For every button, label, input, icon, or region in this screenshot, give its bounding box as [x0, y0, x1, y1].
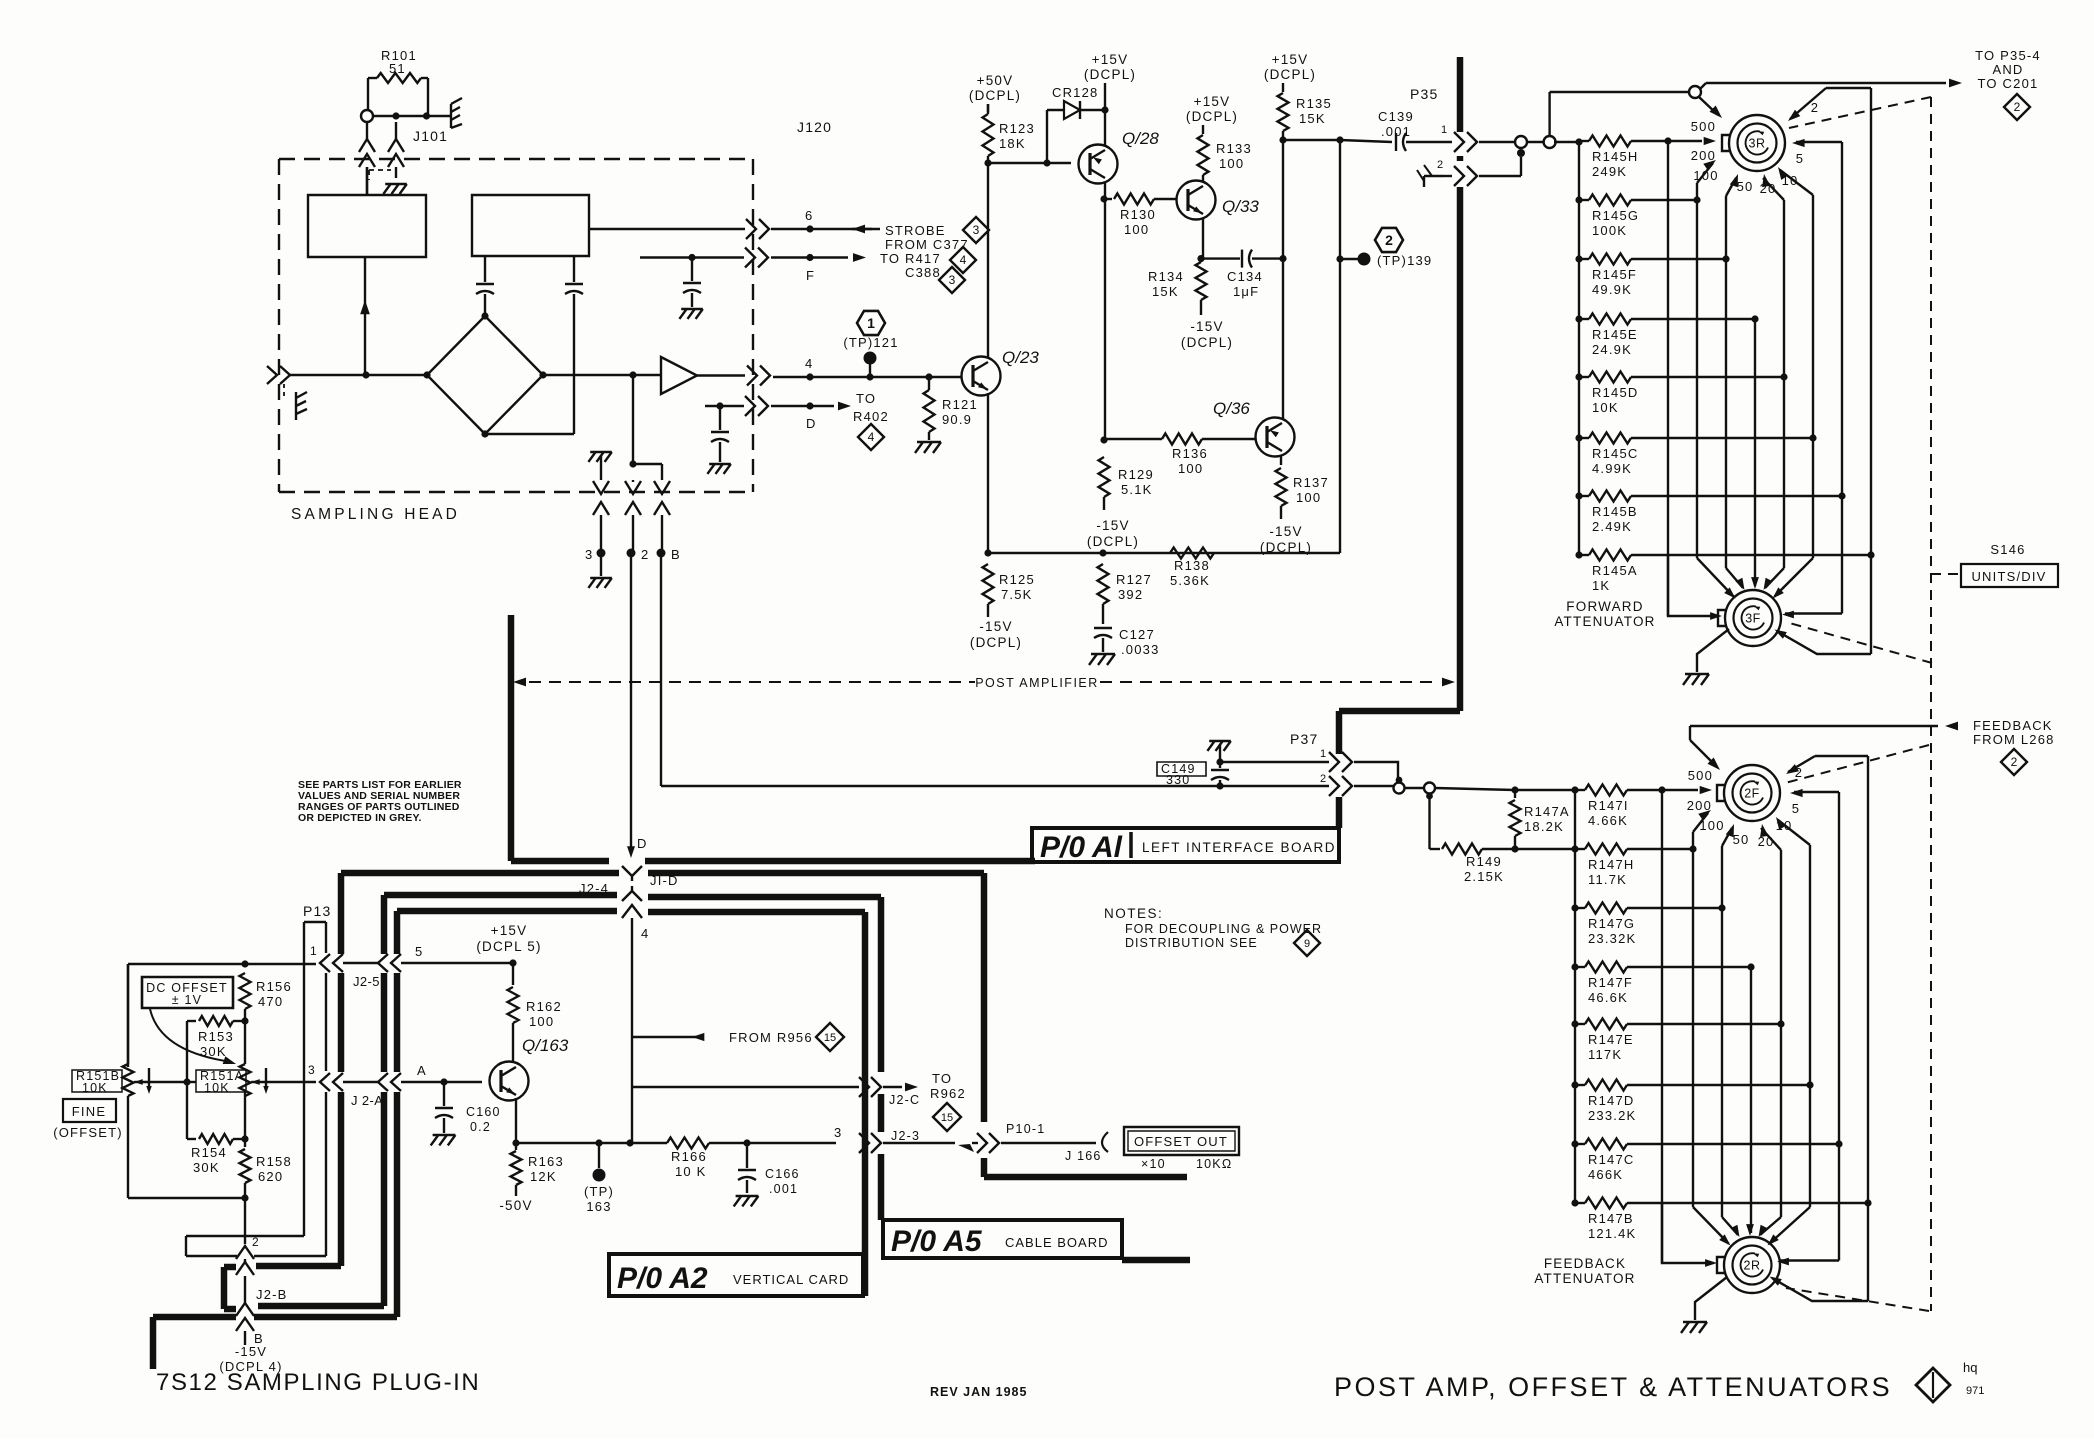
bus4 boundary [153, 911, 865, 1369]
capacitor C166 .001 [738, 1143, 800, 1196]
svg-text:10: 10 [1776, 818, 1793, 833]
wire to P35-4 arrow [1700, 79, 1962, 89]
resistor R147F 46.6K [1571, 962, 1754, 1006]
svg-text:1: 1 [867, 315, 875, 331]
capacitor head-cap2 [565, 256, 583, 434]
wire bridge right to buffer [543, 371, 661, 378]
wire R149 branch [1430, 799, 1441, 849]
svg-text:R145E: R145E [1592, 327, 1638, 342]
svg-text:R145C: R145C [1592, 446, 1638, 461]
svg-text:R133: R133 [1216, 141, 1252, 156]
svg-text:90.9: 90.9 [942, 412, 972, 427]
wire R153 left [186, 1021, 188, 1139]
wire forward V6 to 3F [1812, 438, 1814, 558]
wire offset bottom loop [128, 1096, 245, 1198]
svg-text:FOR DECOUPLING & POWER: FOR DECOUPLING & POWER [1125, 922, 1322, 936]
svg-text:REV JAN 1985: REV JAN 1985 [930, 1385, 1027, 1399]
rotary switch 2R [1717, 1237, 1780, 1293]
svg-text:(DCPL): (DCPL) [1084, 67, 1136, 82]
svg-text:15K: 15K [1152, 284, 1179, 299]
svg-text:R402: R402 [853, 409, 889, 424]
svg-text:-15V: -15V [979, 619, 1012, 634]
svg-text:C134: C134 [1227, 269, 1263, 284]
capacitor rowF decoupling [679, 258, 702, 319]
svg-text:C160: C160 [466, 1105, 501, 1119]
svg-text:24.9K: 24.9K [1592, 342, 1632, 357]
wire rowD right [771, 402, 834, 409]
3F ground [1683, 629, 1729, 685]
capacitor C149 330 [1157, 762, 1229, 790]
connector B chevron [236, 1318, 264, 1346]
svg-text:(DCPL): (DCPL) [1181, 335, 1233, 350]
half arrow at P10-1 [958, 1144, 974, 1152]
junction circle at 3R [1689, 86, 1701, 98]
wire row4 right [773, 373, 961, 380]
rotary switch 3F [1718, 590, 1781, 646]
post amplifier measure line [513, 676, 1455, 690]
bus3 boundary [258, 895, 881, 1306]
svg-text:R145A: R145A [1592, 563, 1638, 578]
svg-text:FORWARD: FORWARD [1566, 599, 1643, 614]
svg-text:2: 2 [2014, 100, 2021, 114]
P37 pin1 chevrons [1329, 752, 1352, 772]
wire j2b middle [244, 1276, 246, 1303]
resistor R153 30K [187, 1016, 245, 1059]
wire forward V2 to 3F [1696, 200, 1698, 558]
rotary switch 3R [1722, 115, 1785, 171]
ground inside head [383, 184, 406, 194]
flag diamond 2 l268 [2001, 749, 2027, 775]
chevrons rowD [745, 396, 768, 416]
testpoint circle2 P35 [1544, 92, 1689, 148]
svg-text:R136: R136 [1172, 446, 1208, 461]
svg-text:2: 2 [1385, 232, 1393, 248]
svg-text:3: 3 [834, 1125, 842, 1140]
svg-text:TO R417: TO R417 [880, 251, 941, 266]
resistor R145F 49.9K [1575, 254, 1729, 298]
arrow into box1 [360, 257, 370, 375]
flag diamond 15 r956 [816, 1023, 844, 1051]
svg-text:POST AMP, OFFSET & ATTENUATOR: POST AMP, OFFSET & ATTENUATORS [1334, 1372, 1892, 1402]
board A1 jog to P35 [1339, 711, 1460, 828]
capacitor head-cap1 [476, 256, 494, 316]
svg-text:23.32K: 23.32K [1588, 931, 1636, 946]
wire Q128 collector to Q136 [1100, 199, 1107, 444]
resistor R162 100 [508, 963, 562, 1062]
power -15V DCPL R129 [1087, 518, 1139, 549]
wire Q123 emitter down [984, 393, 991, 557]
svg-text:R153: R153 [198, 1029, 234, 1044]
resistor R163 12K [511, 1143, 564, 1196]
svg-text:-15V: -15V [1096, 518, 1129, 533]
wire feedback V7 to 2R [1838, 1144, 1840, 1261]
2F terminal 100 [1693, 810, 1725, 849]
svg-text:J2-C: J2-C [889, 1093, 920, 1107]
svg-text:(DCPL): (DCPL) [969, 88, 1021, 103]
notes text [1104, 906, 1322, 950]
svg-text:2: 2 [252, 1235, 260, 1249]
svg-text:CR128: CR128 [1052, 85, 1098, 100]
P13 pin2 chevron [236, 1235, 260, 1259]
svg-text:2: 2 [641, 547, 649, 562]
svg-text:200: 200 [1687, 798, 1712, 813]
forward ladder left bus [1578, 141, 1580, 555]
svg-text:18.2K: 18.2K [1524, 819, 1564, 834]
connector P37 label [1290, 731, 1319, 747]
resistor R145C 4.99K [1575, 433, 1816, 477]
svg-text:AND: AND [1992, 62, 2023, 77]
label TO R417 C388 [880, 251, 941, 280]
svg-text:R145B: R145B [1592, 504, 1638, 519]
resistor R145E 24.9K [1575, 314, 1758, 358]
svg-text:+15V: +15V [1272, 52, 1309, 67]
arrow to R962 [883, 1071, 966, 1101]
svg-text:R147G: R147G [1588, 916, 1635, 931]
svg-text:R154: R154 [191, 1145, 227, 1160]
svg-text:B: B [671, 547, 681, 562]
power +15V DCPL R135 [1264, 52, 1316, 82]
jack J166 arc [1102, 1132, 1108, 1152]
wire Q163 emitter [512, 1098, 519, 1147]
wire emitter row [516, 1139, 667, 1146]
flag diamond 4 r417 [950, 247, 976, 273]
svg-text:121.4K: 121.4K [1588, 1226, 1636, 1241]
svg-text:4: 4 [641, 926, 649, 941]
label STROBE FROM C377 [885, 223, 969, 252]
potentiometer R151B 10K [72, 1064, 143, 1096]
wire pin2 down [244, 1198, 246, 1244]
svg-text:D: D [637, 836, 648, 851]
svg-text:JI-D: JI-D [650, 873, 679, 888]
svg-text:ATTENUATOR: ATTENUATOR [1534, 1271, 1635, 1286]
svg-text:46.6K: 46.6K [1588, 990, 1628, 1005]
wire forward V5 to 3F [1783, 377, 1785, 568]
label 6 [805, 208, 813, 223]
svg-text:.001: .001 [1381, 124, 1411, 139]
3R terminal 5 [1792, 139, 1842, 496]
wire forward V7 to 3F [1841, 496, 1843, 614]
svg-text:392: 392 [1118, 587, 1143, 602]
label SAMPLING HEAD [291, 506, 460, 523]
wire box1 up [366, 167, 368, 195]
svg-text:R127: R127 [1116, 572, 1152, 587]
svg-text:3: 3 [949, 273, 956, 287]
connector chevrons J101 to head [359, 122, 404, 195]
wire feedback V1 to 2R [1661, 790, 1663, 1263]
svg-text:(OFFSET): (OFFSET) [53, 1125, 123, 1140]
resistor R137 100 [1276, 455, 1329, 519]
strobe arrow [852, 225, 880, 234]
svg-text:Q/33: Q/33 [1222, 197, 1259, 216]
svg-text:R163: R163 [528, 1154, 564, 1169]
testpoint TP139 [1336, 228, 1432, 268]
svg-text:R162: R162 [526, 999, 562, 1014]
resistor R147I 4.66K [1575, 785, 1712, 829]
svg-text:330: 330 [1166, 773, 1190, 787]
sheet diamond 1 [1916, 1368, 1950, 1402]
J2-3 chevrons [859, 1129, 920, 1153]
svg-text:TO: TO [856, 391, 876, 406]
flag diamond 3 r417 [939, 267, 965, 293]
emitter junction wire Q123 [988, 549, 1340, 556]
svg-text:TO: TO [932, 1071, 952, 1086]
resistor R127 392 [1098, 564, 1152, 624]
svg-text:R147H: R147H [1588, 857, 1634, 872]
svg-text:3: 3 [585, 547, 593, 562]
capacitor C127 .0033 [1094, 627, 1160, 657]
circle junction P37a [1394, 777, 1405, 794]
connector P13 body [186, 903, 332, 1256]
wire R135 bottom to C139 [1283, 136, 1392, 143]
capacitor rowD decoupling [707, 406, 730, 474]
transistor Q133 [1177, 181, 1260, 220]
label hq 971 [1963, 1360, 1984, 1397]
bus D line [631, 861, 633, 863]
wire pin4 down [631, 918, 633, 1037]
svg-text:ATTENUATOR: ATTENUATOR [1554, 614, 1655, 629]
potentiometer R151A 10K [196, 1064, 260, 1096]
transistor Q128 [1079, 129, 1160, 184]
svg-text:4: 4 [960, 253, 967, 267]
svg-text:5.36K: 5.36K [1170, 573, 1210, 588]
svg-text:R145H: R145H [1592, 149, 1638, 164]
wire offset top row [128, 960, 316, 967]
chevrons head output row4 [747, 366, 770, 386]
resistor R166 10K [667, 1138, 836, 1180]
wire feedback V4 to 2R [1750, 967, 1752, 1215]
svg-text:P35: P35 [1410, 86, 1439, 102]
wire input to bridge [362, 371, 427, 378]
svg-text:J2-4: J2-4 [579, 881, 609, 896]
resistor R145D 10K [1575, 372, 1787, 416]
3R terminal 2 [1788, 88, 1871, 555]
box P/O A1 [1032, 828, 1339, 864]
input stub ground [284, 384, 307, 420]
wire feedback bus row [1515, 786, 1579, 793]
power -50V [499, 1198, 532, 1213]
svg-text:20: 20 [1760, 181, 1777, 196]
svg-text:10K: 10K [204, 1081, 230, 1095]
svg-text:Q/23: Q/23 [1002, 348, 1039, 367]
switch S146 label [1990, 542, 2025, 557]
flag diamond 4 r402 [858, 424, 884, 450]
svg-text:R147I: R147I [1588, 798, 1629, 813]
svg-text:Q/36: Q/36 [1213, 399, 1250, 418]
svg-text:0.2: 0.2 [470, 1120, 491, 1134]
svg-text:R147C: R147C [1588, 1152, 1634, 1167]
svg-text:620: 620 [258, 1169, 283, 1184]
svg-text:R147F: R147F [1588, 975, 1633, 990]
node B [657, 547, 681, 562]
svg-text:C127: C127 [1119, 627, 1155, 642]
svg-text:10: 10 [1782, 173, 1799, 188]
svg-text:12K: 12K [530, 1169, 557, 1184]
wire forward V1 to 3F [1667, 141, 1669, 616]
resistor R147E 117K [1571, 1019, 1784, 1063]
svg-text:15: 15 [941, 1112, 953, 1124]
svg-text:DISTRIBUTION SEE: DISTRIBUTION SEE [1125, 936, 1258, 950]
svg-text:50: 50 [1733, 832, 1750, 847]
svg-text:R125: R125 [999, 572, 1035, 587]
P37 pin1 wire [1207, 741, 1329, 766]
svg-text:J 2-A: J 2-A [351, 1093, 383, 1108]
2F terminal 10 [1776, 817, 1810, 1085]
svg-text:TO P35-4: TO P35-4 [1975, 48, 2041, 63]
svg-text:49.9K: 49.9K [1592, 282, 1632, 297]
wire bridge bottom to cap2 [485, 433, 574, 435]
resistor R145H 249K [1579, 136, 1716, 180]
label FINE boxed [63, 1099, 116, 1122]
transistor Q123 [962, 348, 1040, 396]
ground C127 [1089, 654, 1115, 665]
label 5 [415, 944, 423, 959]
2F terminal 2 [1786, 756, 1868, 1203]
svg-text:6: 6 [805, 208, 813, 223]
svg-text:+50V: +50V [977, 73, 1014, 88]
UNITS/DIV box [1961, 564, 2058, 587]
wire buffer junction down [629, 375, 662, 480]
flag diamond 15 r962 [933, 1103, 961, 1131]
svg-text:7.5K: 7.5K [1001, 587, 1033, 602]
svg-text:J2-5: J2-5 [353, 974, 380, 989]
svg-text:2.49K: 2.49K [1592, 519, 1632, 534]
P37 pin2 chevrons [1320, 773, 1352, 796]
wire P35 pin1 out [1479, 141, 1546, 143]
svg-text:(DCPL): (DCPL) [1186, 109, 1238, 124]
svg-text:R130: R130 [1120, 207, 1156, 222]
svg-text:R147D: R147D [1588, 1093, 1634, 1108]
svg-text:(DCPL 5): (DCPL 5) [476, 939, 541, 954]
wire forward V8 to 3F [1870, 555, 1872, 654]
svg-text:1: 1 [310, 944, 318, 958]
capacitor C134 1uF [1201, 250, 1287, 299]
power -15V DCPL4 [219, 1344, 282, 1374]
resistor R101 51 [368, 48, 428, 116]
3R terminal 10 [1778, 167, 1813, 438]
ganging dashed shaft [1785, 97, 1961, 1311]
power -15V DCPL R137 [1260, 524, 1312, 555]
svg-text:R138: R138 [1174, 558, 1210, 573]
svg-text:F: F [806, 268, 815, 283]
svg-text:R145F: R145F [1592, 267, 1637, 282]
capacitor C160 0.2 [435, 1082, 501, 1134]
svg-text:11.7K: 11.7K [1588, 872, 1627, 887]
transistor Q163 [490, 1036, 569, 1101]
ground C160 [431, 1135, 456, 1145]
wire pin1 to R162 [343, 959, 517, 966]
svg-text:Q/163: Q/163 [522, 1036, 569, 1055]
wire forward V4 to 3F [1754, 319, 1756, 566]
testpoint TP163 [584, 1143, 614, 1214]
parts list note [298, 779, 462, 824]
svg-text:+15V: +15V [1092, 52, 1129, 67]
wire feedback V8 to 2R [1867, 1203, 1869, 1301]
svg-text:P/0 A5: P/0 A5 [891, 1225, 983, 1258]
gang arrow marker R151A [263, 1068, 268, 1094]
label F [806, 268, 815, 283]
chevrons row6 [746, 219, 769, 239]
svg-text:2: 2 [1811, 100, 1819, 115]
svg-text:1: 1 [1320, 748, 1327, 760]
resistor R154 30K [187, 1134, 249, 1175]
svg-text:3R: 3R [1749, 137, 1766, 151]
svg-text:100: 100 [1219, 156, 1244, 171]
wire R151 wipers [141, 1078, 196, 1085]
wire Q128 collector down [1100, 182, 1107, 203]
svg-text:R156: R156 [256, 979, 292, 994]
svg-text:233.2K: 233.2K [1588, 1108, 1636, 1123]
2R fan arrows [1662, 1203, 1868, 1301]
svg-text:×10: ×10 [1141, 1157, 1166, 1171]
wire feedback V2 to 2R [1692, 849, 1694, 1207]
J2-B chevron lower [236, 1287, 288, 1316]
P10-1 chevrons [977, 1122, 1045, 1153]
svg-text:-15V: -15V [235, 1344, 267, 1359]
svg-text:2F: 2F [1744, 787, 1760, 801]
label A [417, 1063, 427, 1078]
wire row6 from box2 [589, 228, 745, 230]
wire offset left loop [127, 964, 129, 1067]
resistor R130 100 [1104, 194, 1176, 238]
svg-text:5: 5 [1792, 801, 1800, 816]
sampling bridge [423, 312, 546, 437]
svg-text:200: 200 [1691, 148, 1716, 163]
wire from R956 [632, 1030, 813, 1045]
arrow to R402 [838, 402, 851, 411]
svg-text:P13: P13 [303, 903, 332, 919]
resistor R129 5.1K [1099, 457, 1154, 510]
svg-text:470: 470 [258, 994, 283, 1009]
svg-text:(TP)121: (TP)121 [843, 335, 898, 350]
svg-text:30K: 30K [200, 1044, 227, 1059]
svg-text:-50V: -50V [499, 1198, 532, 1213]
J2-5 chevrons [353, 954, 401, 989]
svg-text:2.15K: 2.15K [1464, 869, 1504, 884]
svg-text:R962: R962 [930, 1086, 966, 1101]
wire pinB down and right to P37 [661, 557, 1329, 786]
label 3 J2-3 [834, 1125, 842, 1140]
svg-text:R147A: R147A [1524, 804, 1570, 819]
svg-text:100: 100 [1124, 222, 1149, 237]
svg-text:R158: R158 [256, 1154, 292, 1169]
feedback ladder left bus [1515, 790, 1579, 1203]
2F terminal 20 [1758, 824, 1781, 1024]
svg-text:P/0 A2: P/0 A2 [617, 1262, 708, 1295]
wire P35 pin2 out [1479, 175, 1521, 177]
resistor R147H 11.7K [1575, 844, 1697, 888]
svg-text:10 K: 10 K [675, 1164, 707, 1179]
resistor R147B 121.4K [1571, 1198, 1871, 1242]
input chevrons at head left edge [267, 366, 366, 384]
svg-text:4.99K: 4.99K [1592, 461, 1632, 476]
resistor R136 100 [1104, 434, 1256, 477]
svg-text:2: 2 [1320, 773, 1327, 785]
svg-text:4.66K: 4.66K [1588, 813, 1628, 828]
svg-text:R123: R123 [999, 121, 1035, 136]
svg-text:A: A [417, 1063, 427, 1078]
3F fan arrows [1668, 555, 1871, 654]
svg-text:5.1K: 5.1K [1121, 482, 1153, 497]
svg-text:hq: hq [1963, 1360, 1977, 1375]
svg-text:5: 5 [415, 944, 423, 959]
flag diamond 3 strobe [963, 217, 989, 243]
svg-text:(DCPL): (DCPL) [1264, 67, 1316, 82]
svg-text:VERTICAL CARD: VERTICAL CARD [733, 1272, 849, 1287]
title POST AMP [1334, 1372, 1892, 1402]
2F terminal 50 [1722, 824, 1749, 908]
power +15V DCPL Q133 [1186, 94, 1238, 124]
svg-text:R166: R166 [671, 1149, 707, 1164]
